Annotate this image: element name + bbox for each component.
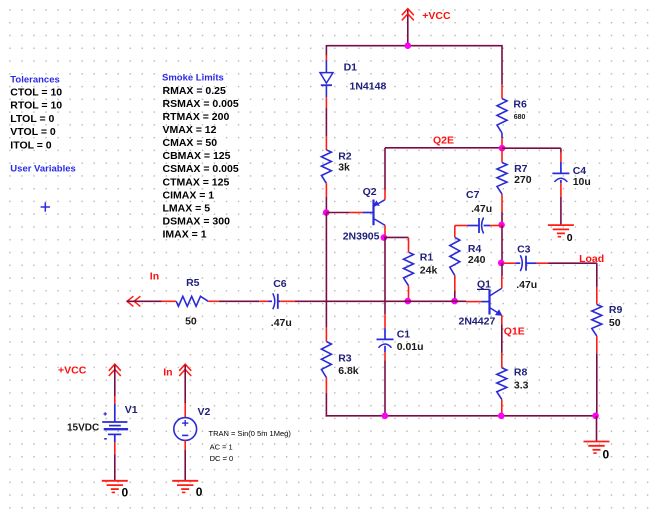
svg-text:V1: V1 xyxy=(125,404,138,416)
svg-text:0: 0 xyxy=(603,448,610,462)
node Q2 collector junction xyxy=(381,234,388,241)
capacitor C7 xyxy=(455,225,468,227)
svg-text:6.8k: 6.8k xyxy=(338,365,359,377)
svg-text:.47u: .47u xyxy=(471,203,492,215)
resistor R6 xyxy=(501,85,503,99)
svg-text:15VDC: 15VDC xyxy=(67,423,99,434)
svg-text:RTMAX = 200: RTMAX = 200 xyxy=(163,111,230,123)
capacitor C1 xyxy=(384,314,386,328)
wire collector node to R1 xyxy=(384,236,409,238)
wire V1 to ground xyxy=(114,455,116,481)
power symbol In arrow (V2) xyxy=(179,364,191,371)
capacitor C4 xyxy=(560,152,562,162)
node Q2E-R6-R7 junction xyxy=(499,145,506,152)
node R1 bottom junction xyxy=(405,298,412,305)
wire collector node down (crosses In wire) xyxy=(384,238,386,315)
svg-text:CMAX = 50: CMAX = 50 xyxy=(163,137,218,149)
svg-text:240: 240 xyxy=(468,254,486,266)
svg-text:V2: V2 xyxy=(198,406,211,418)
voltage source V1 (battery) xyxy=(114,396,116,404)
svg-text:3.3: 3.3 xyxy=(514,380,529,392)
resistor R7 xyxy=(501,148,503,162)
svg-text:24k: 24k xyxy=(420,264,438,276)
resistor R3 xyxy=(325,328,327,342)
wire R5 to C6 xyxy=(219,300,259,302)
capacitor C3 xyxy=(503,262,515,264)
svg-text:C1: C1 xyxy=(397,329,411,341)
svg-text:LTOL = 0: LTOL = 0 xyxy=(10,113,54,125)
svg-text:.47u: .47u xyxy=(271,317,292,329)
svg-text:680: 680 xyxy=(514,114,526,121)
svg-text:0: 0 xyxy=(122,486,129,500)
svg-text:RSMAX = 0.005: RSMAX = 0.005 xyxy=(163,98,239,110)
wire R3 to bottom rail xyxy=(325,393,327,417)
wire V2 to ground xyxy=(184,450,186,481)
svg-text:270: 270 xyxy=(514,174,532,186)
resistor R1 xyxy=(408,238,410,252)
svg-text:R5: R5 xyxy=(186,277,200,289)
svg-text:Q1E: Q1E xyxy=(504,326,525,338)
svg-text:CIMAX = 1: CIMAX = 1 xyxy=(163,189,215,201)
wire bottom rail xyxy=(326,415,597,417)
power symbol +VCC arrow (V1) xyxy=(109,364,121,371)
wire Q2E node to C4 xyxy=(502,147,561,149)
ground below C4 xyxy=(548,224,574,226)
svg-text:50: 50 xyxy=(185,316,197,328)
svg-text:Smoke Limits: Smoke Limits xyxy=(162,73,224,84)
wire Q2 base xyxy=(326,212,349,214)
svg-text:R9: R9 xyxy=(609,304,623,316)
wire V1 arrow stem xyxy=(114,365,116,396)
wire top rail corner to R6 xyxy=(501,45,503,85)
svg-text:R6: R6 xyxy=(513,99,527,111)
svg-text:2N4427: 2N4427 xyxy=(459,316,496,328)
voltage source V2 (sine) xyxy=(184,403,186,418)
svg-text:CTMAX = 125: CTMAX = 125 xyxy=(163,176,230,188)
wire bottom rail to ground xyxy=(596,416,598,442)
svg-text:VMAX = 12: VMAX = 12 xyxy=(163,124,217,136)
svg-text:C7: C7 xyxy=(466,189,480,201)
wire C1 to bottom rail xyxy=(384,361,386,416)
wire C6 to Q1 base (crosses verticals) xyxy=(295,300,466,302)
node C1 bottom-rail junction xyxy=(382,413,389,420)
resistor R5 xyxy=(162,300,176,302)
svg-text:VTOL = 0: VTOL = 0 xyxy=(10,126,56,138)
svg-text:C4: C4 xyxy=(573,165,587,177)
capacitor C6 xyxy=(259,300,268,302)
ground below V2 xyxy=(172,480,198,482)
wire base node down (crosses In wire) xyxy=(325,213,327,328)
svg-text:DC = 0: DC = 0 xyxy=(210,454,234,463)
svg-text:DSMAX = 300: DSMAX = 300 xyxy=(163,215,231,227)
svg-text:R3: R3 xyxy=(338,353,352,365)
svg-text:Tolerances: Tolerances xyxy=(10,74,59,85)
svg-text:In: In xyxy=(150,270,159,282)
user variables plus marker xyxy=(41,206,50,208)
wire C4 to ground xyxy=(560,197,562,225)
diode D1 xyxy=(325,55,327,61)
node R8 bottom-rail junction xyxy=(498,413,505,420)
wire top-left corner to D1 xyxy=(325,45,327,56)
wire V2 arrow stem xyxy=(184,365,186,403)
svg-text:R7: R7 xyxy=(514,163,528,175)
power symbol +VCC arrow xyxy=(402,9,414,16)
wire R4 to In wire xyxy=(454,291,456,301)
svg-text:R8: R8 xyxy=(514,366,528,378)
svg-text:0.01u: 0.01u xyxy=(397,341,424,353)
svg-text:C6: C6 xyxy=(273,278,287,290)
wire +VCC stem xyxy=(407,10,409,46)
svg-text:CTOL = 10: CTOL = 10 xyxy=(10,86,62,98)
svg-text:Q1: Q1 xyxy=(477,279,491,291)
resistor R8 xyxy=(501,353,503,368)
svg-text:.47u: .47u xyxy=(516,279,537,291)
transistor Q2 xyxy=(350,212,363,214)
wire Q2E horizontal xyxy=(385,147,502,149)
svg-text:C3: C3 xyxy=(517,244,531,256)
wire Q2E vertical to emitter xyxy=(384,148,386,190)
svg-text:IMAX = 1: IMAX = 1 xyxy=(163,228,207,240)
node R4 bottom junction xyxy=(451,298,458,305)
offpage connector In (double chevron) xyxy=(127,296,133,306)
resistor R9 xyxy=(596,287,598,305)
node C7 junction xyxy=(498,222,505,229)
svg-text:3k: 3k xyxy=(338,162,350,174)
svg-text:+VCC: +VCC xyxy=(422,10,451,22)
svg-text:AC = 1: AC = 1 xyxy=(210,443,233,452)
svg-text:Q2E: Q2E xyxy=(433,135,454,147)
svg-text:LMAX = 5: LMAX = 5 xyxy=(163,202,211,214)
svg-text:CSMAX = 0.005: CSMAX = 0.005 xyxy=(163,163,239,175)
resistor R2 xyxy=(325,136,327,150)
svg-text:In: In xyxy=(163,366,172,378)
transistor Q1 xyxy=(466,301,482,303)
svg-text:TRAN = Sin(0 5m 1Meg): TRAN = Sin(0 5m 1Meg) xyxy=(209,429,292,438)
wire C3 to Load corner xyxy=(548,262,597,264)
wire top rail VCC xyxy=(326,45,502,47)
svg-text:+VCC: +VCC xyxy=(58,365,87,377)
ground bottom-right xyxy=(584,441,610,443)
resistor R4 xyxy=(454,226,456,238)
node R9 bottom-rail junction xyxy=(592,413,599,420)
svg-text:0: 0 xyxy=(567,232,573,244)
node Q2 base junction xyxy=(323,209,330,216)
svg-text:R1: R1 xyxy=(420,252,434,264)
svg-text:RTOL = 10: RTOL = 10 xyxy=(10,100,62,112)
svg-text:User Variables: User Variables xyxy=(10,164,76,175)
svg-text:RMAX = 0.25: RMAX = 0.25 xyxy=(163,85,226,97)
wire R9 to bottom rail xyxy=(596,353,598,416)
wire D1 to R2 xyxy=(325,108,327,136)
wire C3 node to Q1 collector xyxy=(501,263,503,276)
svg-text:2N3905: 2N3905 xyxy=(343,231,380,243)
ground below V1 xyxy=(102,480,128,482)
svg-text:0: 0 xyxy=(196,485,203,499)
wire Q1 emitter to R8 xyxy=(501,324,503,352)
svg-text:CBMAX = 125: CBMAX = 125 xyxy=(163,150,231,162)
node +VCC junction xyxy=(405,42,412,49)
svg-text:D1: D1 xyxy=(344,61,358,73)
wire In left segment xyxy=(127,300,162,302)
svg-text:ITOL = 0: ITOL = 0 xyxy=(10,139,51,151)
wire C7 node to C3 node xyxy=(501,225,503,263)
svg-text:50: 50 xyxy=(609,317,621,329)
wire R2 to base node xyxy=(325,197,327,213)
svg-text:Q2: Q2 xyxy=(363,186,377,198)
svg-text:10u: 10u xyxy=(573,176,591,188)
node C3 junction xyxy=(498,260,505,267)
svg-text:1N4148: 1N4148 xyxy=(350,81,387,93)
wire R7 to C7 node xyxy=(501,212,503,225)
